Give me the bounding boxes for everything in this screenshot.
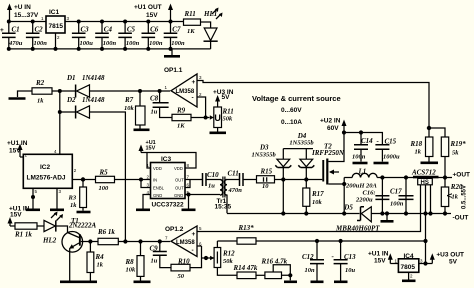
junction dots diode node [58,89,62,114]
junction dot R4 [88,239,92,243]
wire IC3 pin7 out [185,179,202,181]
svg-text:IC2: IC2 [40,164,51,171]
svg-text:R1 1k: R1 1k [14,231,32,239]
wire -OUT rail [344,213,451,215]
svg-text:C16:: C16: [363,190,376,197]
svg-text:D1: D1 [66,74,76,82]
capacitor C16 [355,178,389,214]
svg-text:15...37V: 15...37V [14,12,39,19]
svg-text:10k: 10k [124,105,135,112]
svg-text:OP1.1: OP1.1 [164,67,183,74]
svg-text:1u: 1u [151,109,158,116]
node +U2 IN arrow [320,118,347,133]
wire D2 row [60,111,76,113]
capacitor C5 [118,22,139,49]
wire R5 wire drop to IC3 pin3 [139,178,151,188]
capacitor C13 [332,241,357,282]
svg-text:R15: R15 [260,168,273,176]
junction dots out rail [380,175,447,179]
wire HS pin right to -OUT [430,185,432,214]
svg-text:D3: D3 [259,144,269,152]
svg-text:+: + [192,79,196,86]
svg-text:LM2576-ADJ: LM2576-ADJ [27,175,66,182]
wire IC4 pin2 to ground [402,272,416,281]
svg-text:R9: R9 [176,107,186,115]
svg-text:15:35: 15:35 [215,204,232,211]
svg-text:VDD: VDD [153,166,162,171]
junction dot wiper node [204,116,208,120]
diode D2 1N4148 [66,96,105,119]
wire R10 to wiper node [190,246,202,268]
svg-text:5V: 5V [449,259,458,266]
junction dots ground rail [7,47,173,51]
wire ground rail [9,48,211,50]
svg-text:VDD: VDD [174,166,183,171]
svg-text:1k: 1k [70,202,77,209]
LED HL2 [42,212,63,245]
wire R11 to HL1 [201,22,211,28]
svg-text:HL2: HL2 [42,237,57,245]
svg-text:+: + [0,27,4,34]
svg-text:1N4148: 1N4148 [82,74,105,82]
svg-text:7815: 7815 [49,23,64,30]
IC2 LM2576-ADJ [23,149,77,194]
zener D3 1N5355b [252,144,292,214]
capacitor C10 [203,171,220,190]
capacitor C17 [390,178,414,214]
op-amp OP1.2 [165,226,202,257]
svg-text:5V: 5V [222,94,231,101]
wire zener top rail [283,148,313,150]
svg-text:IC1: IC1 [49,9,60,16]
svg-text:+U3 OUT: +U3 OUT [436,252,464,259]
svg-text:470n: 470n [228,187,243,194]
diode D5 MBR40H60PT [335,204,380,233]
svg-text:0.5...55V: 0.5...55V [462,185,468,209]
potentiometer R12 50k [210,248,235,268]
resistor R13* [217,238,256,248]
resistor R17 [303,180,324,214]
svg-text:L1: L1 [358,168,367,176]
wire R5 to IC3 pin2 [115,179,151,181]
svg-text:100u: 100u [80,40,94,47]
IC3 UCC37322 [147,156,190,209]
svg-text:10: 10 [262,183,269,190]
svg-text:C13: C13 [344,253,356,261]
svg-text:IRFP250N: IRFP250N [311,149,345,157]
transistor T2 IRFP250N [311,133,345,185]
svg-text:R4: R4 [95,253,105,261]
capacitor C11 [228,170,257,195]
svg-text:60V: 60V [327,125,339,132]
svg-text:C2: C2 [35,26,44,34]
junction dot wiper node OP1.2 [204,256,208,260]
capacitor C15 [374,138,401,164]
wire top rail left [9,21,46,23]
resistor R4 [87,242,104,281]
svg-text:1N5355b: 1N5355b [252,152,277,159]
ground symbol R2 [9,91,33,99]
svg-text:100: 100 [99,185,110,192]
wire +U2 rail [344,133,382,145]
svg-text:50: 50 [178,273,185,280]
node +U3 IN arrow [213,89,234,107]
junction dot C8 [158,89,162,93]
resistor R15 [257,168,275,191]
svg-text:R12: R12 [222,250,235,258]
wire switch rail left [227,213,344,215]
svg-text:OUT: OUT [175,186,184,191]
svg-text:R11: R11 [184,10,196,18]
junction dots gate row [281,177,308,181]
svg-text:+: + [192,231,196,238]
capacitor C4 [95,22,116,49]
resistor R8 [125,242,151,282]
junction dots R6 row [123,239,162,243]
svg-text:-: - [192,247,194,254]
svg-text:C7: C7 [172,26,181,34]
svg-text:7805: 7805 [401,264,416,271]
transistor T1 2N2222A [62,217,97,252]
svg-text:100n: 100n [149,40,163,47]
svg-text:1000u: 1000u [383,154,400,161]
wire HS pin mid down to 5V [425,185,427,264]
wire R14 to R16 [256,274,265,276]
resistor R3 [68,180,91,213]
svg-text:10k: 10k [126,267,137,274]
junction dots line B [315,239,428,243]
resistor R16 4.7k trimmer [261,258,298,282]
wire T1 base to R6 [81,241,98,243]
node +U1 OUT arrow [168,4,173,22]
svg-text:C6: C6 [150,26,159,34]
svg-text:15V: 15V [10,212,22,219]
wire switch node vertical [343,178,345,214]
svg-text:0...60V: 0...60V [281,107,302,114]
svg-text:IC3: IC3 [161,156,172,163]
svg-text:HL1: HL1 [203,10,217,18]
wire IC3 pin6 tie to pin7 [185,180,190,188]
svg-text:C10: C10 [207,171,219,179]
wire HS pin left down to line A [197,185,421,232]
diode D1 1N4148 [66,74,105,98]
LED HL1 [203,8,223,49]
svg-text:+U2 IN: +U2 IN [320,118,341,125]
svg-text:2N2222A: 2N2222A [68,222,97,230]
svg-text:C15: C15 [385,138,397,146]
svg-text:-: - [192,95,194,102]
capacitor C2 [26,22,47,49]
svg-text:C3: C3 [81,26,90,34]
svg-text:C5: C5 [127,26,136,34]
node +U1 IN arrow R1 [8,206,30,227]
sensor ACS712 HS [411,169,439,187]
junction dot IC4 out [423,261,427,265]
wire IC2 pin5 to ground [26,188,40,210]
wire IC2 pin2 to R5 [72,179,95,181]
wire D2 anode right and down to OP1.2 [90,112,126,242]
capacitor C3 [72,22,93,49]
resistor R10 [171,258,190,281]
svg-text:LM358: LM358 [176,240,195,246]
svg-text:C14: C14 [361,137,373,145]
capacitor C12 [302,241,324,282]
svg-text:100n: 100n [390,201,404,208]
svg-text:1N5355b: 1N5355b [289,140,314,147]
svg-text:IC4: IC4 [404,253,415,260]
svg-text:R11: R11 [222,108,234,116]
junction dots top rail [7,20,173,24]
resistor R11 (LED) [184,10,201,35]
ground symbol top [164,49,180,56]
svg-text:+OUT: +OUT [453,172,471,179]
wire +U1 rail to pins 1 and 8 [141,153,196,169]
wire node vertical to IC2 pin4 [59,91,61,154]
resistor R14 47k [233,264,258,279]
wire D1 anode to OP1.1 out node [90,90,171,92]
junction dot feedback node [427,126,431,130]
wire T1 emitter to ground [60,252,97,282]
wire IC2 pin3 to ground [50,188,64,210]
svg-text:1N4148: 1N4148 [82,96,105,104]
svg-text:R7: R7 [124,96,134,104]
wire IC1 pin2 to ground [55,33,57,49]
junction dots -OUT rail [281,211,447,215]
wire OP1.2 inminus to R12 wiper [197,246,214,258]
junction dots U2 rail [342,130,363,134]
svg-text:10n: 10n [305,267,316,274]
svg-text:U: U [214,113,221,123]
svg-text:OUT: OUT [175,178,184,183]
svg-text:100n: 100n [126,40,140,47]
junction dot R3 node [81,177,85,181]
wire gate row [275,179,323,181]
wire +OUT rail [377,177,413,179]
wire arrow to IC2 pin1 [20,156,23,158]
svg-text:1k: 1k [97,262,104,269]
svg-text:15V: 15V [146,12,158,19]
svg-text:10k: 10k [312,199,323,206]
svg-text:1K: 1K [177,123,185,130]
svg-text:200uH 20A: 200uH 20A [345,183,378,190]
junction dot source [342,182,346,186]
capacitor C9 [150,242,172,268]
node +U1 IN arrow IC4 [368,251,393,265]
svg-text:+U1 OUT: +U1 OUT [134,4,162,11]
capacitor C7 [164,22,185,49]
wire IC4 out [419,263,433,265]
svg-text:1u: 1u [151,258,158,265]
svg-text:15V: 15V [146,146,156,152]
transformer Tr1 [189,177,237,214]
svg-text:-OUT: -OUT [453,215,469,222]
svg-text:R6 1k: R6 1k [97,228,115,236]
svg-text:GND: GND [174,193,183,198]
capacitor C1 [0,22,23,49]
zener D4 1N5355b [289,132,314,180]
capacitor C6 [142,22,163,49]
resistor R2 [32,79,52,105]
svg-text:C9: C9 [150,245,159,253]
svg-text:C4: C4 [104,26,113,34]
resistor R7 [124,91,150,130]
svg-text:15V: 15V [9,148,21,155]
svg-text:R10: R10 [177,258,190,266]
resistor R5 [96,169,115,193]
svg-text:470u: 470u [8,40,23,47]
ground symbol pot [210,128,227,133]
svg-text:1k: 1k [452,194,459,201]
svg-text:+U1 IN: +U1 IN [7,140,28,147]
svg-text:UCC37322: UCC37322 [152,202,185,209]
junction dot pin5 row [187,193,191,197]
capacitor C8 [150,91,172,118]
svg-text:R3: R3 [68,195,77,202]
svg-text:50k: 50k [223,116,234,123]
wire top rail right [65,21,184,23]
svg-text:D5: D5 [343,204,353,212]
wire R2 to node [52,90,76,92]
svg-text:R13*: R13* [238,224,255,232]
svg-text:0...10A: 0...10A [281,119,302,126]
svg-text:C11: C11 [228,170,239,178]
svg-text:5k: 5k [452,150,459,157]
svg-text:OP1.2: OP1.2 [165,226,184,233]
svg-text:C1: C1 [12,26,20,34]
ground symbol out rail [381,214,394,222]
svg-text:C12: C12 [302,253,314,261]
wire HL2 to T1 collector [56,226,68,233]
wire IC3 pin5 to ground [182,195,196,210]
svg-text:R17: R17 [311,190,324,198]
inductor L1 [344,168,377,190]
svg-text:D2: D2 [66,96,76,104]
IC4 7805 [390,253,423,279]
svg-text:1k: 1k [37,98,44,105]
wire IC3 pin4 to ground [136,195,151,210]
svg-text:+U IN: +U IN [14,4,31,11]
svg-text:10u: 10u [345,267,356,274]
wire OP1.1 inminus to wiper node [197,97,206,118]
wire +OUT right [439,177,453,179]
wire R1 to HL2 [37,225,44,227]
resistor R6 [97,228,118,245]
resistor R18 [410,137,439,163]
wire R12 bottom to R14 [217,268,237,276]
node +U1 IN arrow IC2 [7,140,28,157]
potentiometer R11 50k U [210,107,234,128]
node +U IN arrow [7,4,12,22]
svg-text:2200u: 2200u [355,197,373,204]
svg-text:IN: IN [153,178,157,183]
wire R9 to pot wiper [191,117,210,119]
svg-text:R8: R8 [125,258,135,266]
op-amp OP1.1 [164,67,202,107]
node +U1 15V arrow IC3 [139,140,156,153]
svg-text:100n: 100n [103,40,117,47]
capacitor C14 [352,133,380,164]
node +U3 OUT arrow [430,252,464,266]
svg-text:R5: R5 [99,169,109,177]
svg-text:R18: R18 [410,140,423,148]
wire OP1.1 inplus long feedback [197,81,429,138]
potentiometer R20 [441,178,463,214]
resistor R1 [10,223,37,239]
svg-text:+U1 IN: +U1 IN [368,251,389,258]
svg-text:100n: 100n [171,40,185,47]
svg-text:1u: 1u [208,183,215,190]
svg-text:HS: HS [421,180,429,186]
svg-text:15V: 15V [374,258,386,265]
svg-text:100n: 100n [34,40,48,47]
svg-text:ENBL: ENBL [153,186,165,191]
svg-text:1k: 1k [415,149,422,156]
svg-text:100n: 100n [352,154,366,161]
wire line B to 5V [256,240,426,242]
svg-text:GND: GND [153,193,162,198]
svg-text:50k: 50k [223,258,234,265]
svg-text:C17: C17 [390,188,402,196]
wire R6 to OP1.2 [118,241,170,243]
svg-text:Voltage & current source: Voltage & current source [252,94,341,103]
svg-text:R2: R2 [35,79,45,87]
resistor R9 [172,107,191,130]
svg-text:R19*: R19* [450,140,467,148]
resistor R19 [429,128,466,178]
svg-text:R14 47k: R14 47k [233,264,258,272]
junction dot R7 [138,89,142,93]
IC1 7815 [41,9,70,40]
svg-text:1K: 1K [187,28,195,35]
svg-text:ACS712: ACS712 [411,169,436,177]
svg-text:C8: C8 [150,95,159,103]
